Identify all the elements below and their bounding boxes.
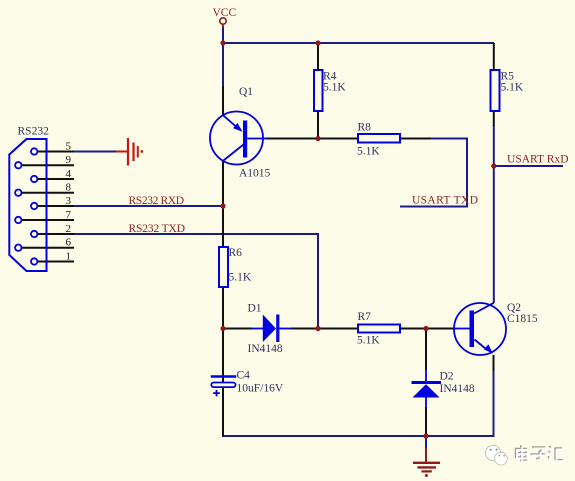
svg-text:4: 4 (66, 168, 72, 180)
svg-text:A1015: A1015 (239, 168, 271, 180)
svg-text:2: 2 (66, 223, 72, 235)
svg-text:5.1K: 5.1K (357, 335, 380, 347)
svg-text:5.1K: 5.1K (501, 82, 524, 94)
svg-text:IN4148: IN4148 (248, 343, 283, 355)
svg-text:6: 6 (66, 237, 72, 249)
svg-text:R7: R7 (358, 311, 372, 323)
svg-text:VCC: VCC (213, 7, 237, 19)
svg-text:1: 1 (66, 251, 72, 263)
svg-text:D1: D1 (248, 303, 262, 315)
svg-text:RS232: RS232 (18, 126, 50, 138)
svg-text:R6: R6 (229, 247, 243, 259)
svg-text:8: 8 (66, 182, 72, 194)
svg-text:D2: D2 (440, 371, 454, 383)
svg-text:RS232 RXD: RS232 RXD (129, 195, 185, 207)
svg-text:C4: C4 (237, 370, 251, 382)
svg-text:USART TXD: USART TXD (412, 195, 478, 207)
svg-text:10uF/16V: 10uF/16V (237, 383, 284, 395)
svg-text:C1815: C1815 (507, 313, 538, 325)
svg-text:USART RxD: USART RxD (507, 153, 569, 165)
svg-text:3: 3 (66, 195, 72, 207)
svg-text:5.1K: 5.1K (323, 82, 346, 94)
svg-text:Q1: Q1 (239, 86, 253, 98)
svg-text:RS232 TXD: RS232 TXD (129, 223, 186, 235)
svg-text:IN4148: IN4148 (440, 383, 475, 395)
svg-text:5.1K: 5.1K (357, 146, 380, 158)
svg-text:9: 9 (66, 154, 72, 166)
svg-text:7: 7 (66, 209, 72, 221)
svg-text:R8: R8 (358, 122, 372, 134)
svg-text:5: 5 (66, 141, 72, 153)
svg-text:5.1K: 5.1K (229, 272, 252, 284)
